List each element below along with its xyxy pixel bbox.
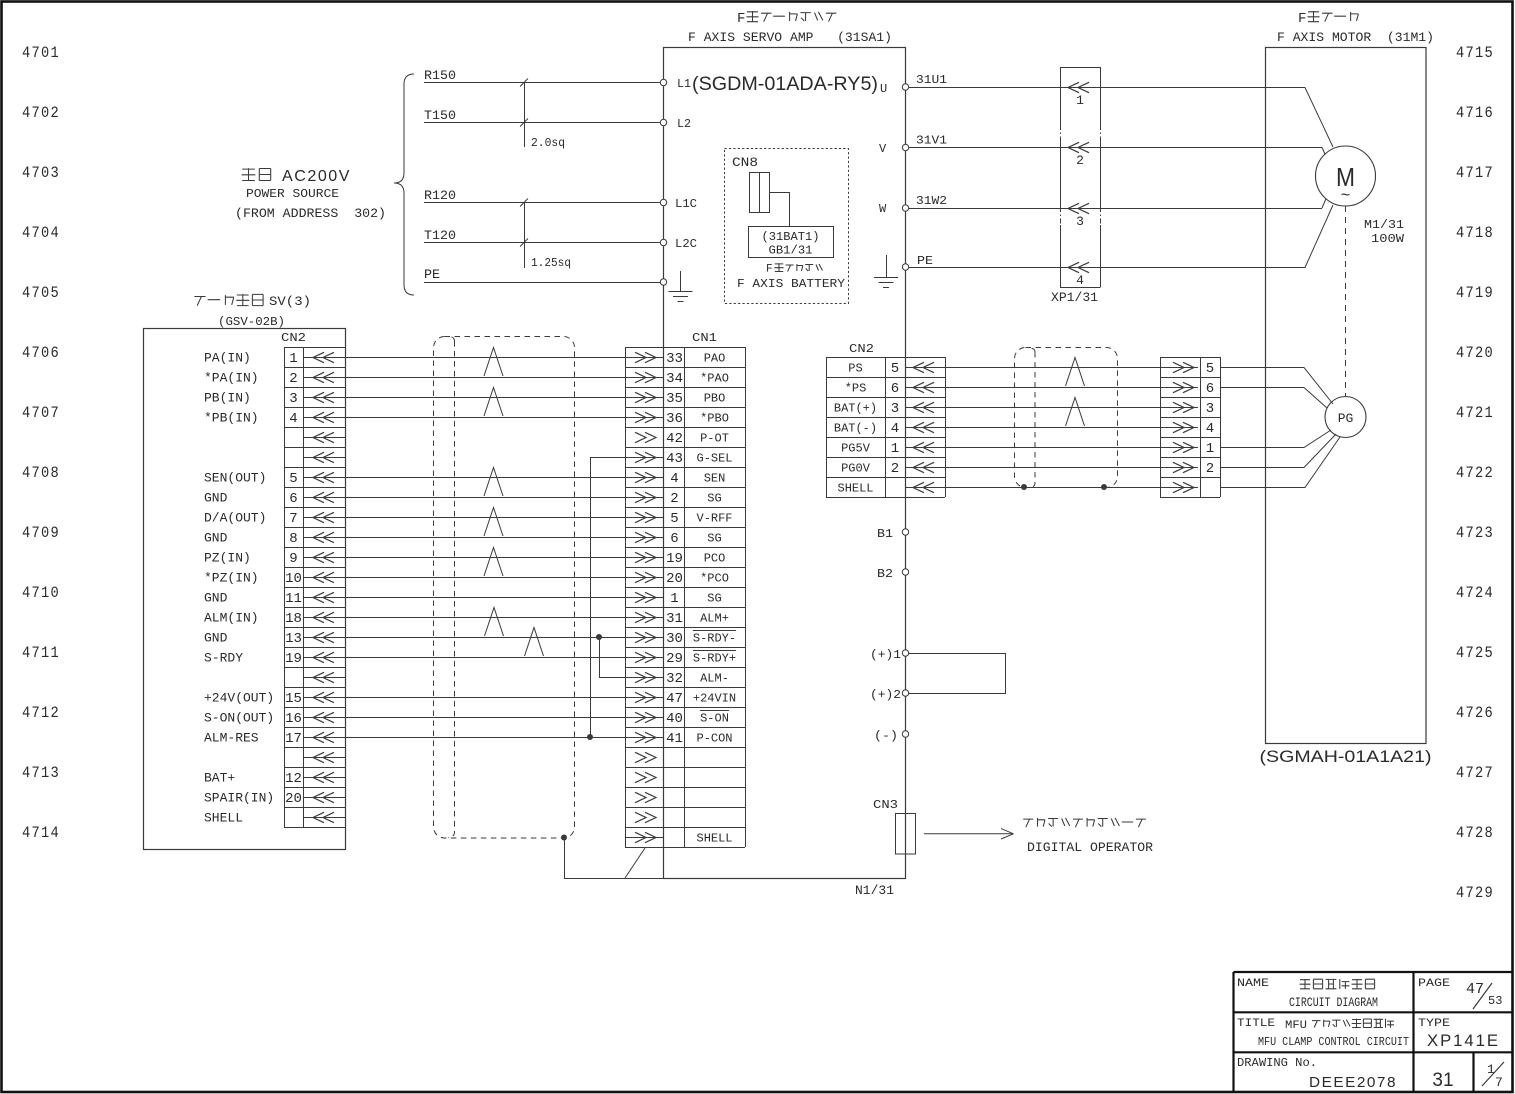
svg-text:T120: T120 [424,228,456,243]
svg-text:2: 2 [289,371,297,387]
svg-text:U: U [880,82,887,96]
svg-text:(+)2: (+)2 [870,688,901,702]
svg-text:1: 1 [1487,1062,1495,1077]
svg-text:4703: 4703 [22,164,60,182]
svg-text:4729: 4729 [1456,884,1494,902]
svg-text:CN3: CN3 [873,798,898,812]
motor shaft dashed link M to PG [1345,206,1347,397]
svg-text:SHELL: SHELL [697,832,733,846]
svg-text:16: 16 [285,711,302,727]
svg-text:4713: 4713 [22,764,60,782]
XP1 pin 2 arrow [1068,142,1079,152]
svg-text:4726: 4726 [1456,704,1494,722]
svg-text:SHELL: SHELL [204,811,243,826]
wire amp CN2 row 2 to motor connector [906,387,1161,389]
CN1 arrow row 18 [625,697,664,699]
svg-text:43: 43 [666,451,683,467]
twisted pair mark S-RDY pair [525,628,544,657]
svg-text:34: 34 [666,371,683,387]
svg-text:SHELL: SHELL [838,482,874,496]
svg-text:19: 19 [666,551,683,567]
svg-text:15: 15 [285,691,302,707]
board CN2 arrow row 3 [304,397,345,399]
svg-text:4715: 4715 [1456,44,1494,62]
svg-text:XP141E: XP141E [1427,1031,1500,1050]
CN1 arrow row 4 [625,417,664,419]
wire gauge marker 2.0sq [524,83,526,148]
twisted pair mark SEN pair [484,468,503,497]
twisted pair mark PB pair [484,388,503,417]
svg-text:41: 41 [666,731,683,747]
svg-text:*PAO: *PAO [700,372,729,386]
wire U to XP1 pin1 [909,87,1264,89]
svg-text:L2C: L2C [675,237,697,251]
wire V to XP1 pin2 [909,147,1322,149]
svg-text:CN2: CN2 [849,342,874,356]
board CN2 arrow row 23 [304,797,345,799]
wire encoder pin2 to PG [1220,434,1336,468]
connector XP1/31 box [1060,67,1101,69]
wire board pin row 11 to CN1 [345,557,625,559]
svg-text:S-ON(OUT): S-ON(OUT) [204,711,274,726]
CN1 arrow row 23 [645,792,656,802]
twisted pair mark PA pair [484,348,503,377]
wire PE into motor [1264,205,1333,268]
wire amp CN2 row 3 to motor connector [906,407,1161,409]
ground symbol at PE input [680,271,682,291]
svg-text:4722: 4722 [1456,464,1494,482]
svg-text:L1C: L1C [675,197,697,211]
svg-text:4: 4 [891,421,899,437]
wire gauge marker 1.25sq [524,203,526,269]
board CN2 arrow row 8 [304,497,345,499]
svg-text:POWER SOURCE: POWER SOURCE [246,187,339,201]
svg-text:(SGMAH-01A1A21): (SGMAH-01A1A21) [1260,747,1432,766]
svg-text:4705: 4705 [22,284,60,302]
wire PE to XP1 pin4 [909,267,1264,269]
svg-text:PG0V: PG0V [841,462,871,476]
servo board label JP: servo kiban SV(3) [194,294,263,306]
svg-text:4724: 4724 [1456,584,1494,602]
motor box 31M1 [1266,48,1427,744]
svg-text:4706: 4706 [22,344,60,362]
wire board pin row 8 to CN1 [345,497,625,499]
svg-text:36: 36 [666,411,683,427]
terminal PE output [902,264,908,270]
wire board pin row 19 to CN1 [345,717,625,719]
CN1 arrow row 6 [625,457,664,459]
svg-text:4711: 4711 [22,644,60,662]
board CN2 pin table grid [284,347,345,828]
svg-text:4725: 4725 [1456,644,1494,662]
svg-text:(-): (-) [874,729,898,743]
ground symbol at PE output [886,255,888,277]
terminal B1 [902,529,908,535]
svg-text:G-SEL: G-SEL [697,452,733,466]
svg-text:2: 2 [670,491,678,507]
shield cable inner boundary (right) [1029,348,1035,488]
arrow CN3 to digital operator [924,833,1013,835]
svg-text:W: W [879,202,887,216]
svg-text:ALM-: ALM- [700,672,729,686]
terminal L2C [660,239,666,245]
svg-text:2: 2 [1076,153,1084,168]
svg-text:9: 9 [289,551,297,567]
power source label JP: dengen AC200V [242,168,271,181]
svg-text:GND: GND [204,591,228,606]
terminal PE input [660,279,666,285]
board CN2 arrow row 17 [304,677,345,679]
svg-text:18: 18 [285,611,302,627]
motor encoder connector table grid [1160,357,1221,498]
CN1 arrow row 25 [625,837,664,839]
svg-text:4721: 4721 [1456,404,1494,422]
svg-text:20: 20 [666,571,683,587]
CN1 arrow row 15 [625,637,664,639]
svg-text:BAT+: BAT+ [204,771,235,786]
shield drain wire to CN1 SHELL [565,838,664,879]
wire amp CN2 row 7 to motor connector [906,487,1161,489]
svg-text:8: 8 [289,531,297,547]
svg-text:PG: PG [1338,411,1354,426]
board CN2 arrow row 7 [304,477,345,479]
terminal (-) [902,731,908,737]
svg-text:4: 4 [1076,273,1084,288]
wire amp CN2 row 5 to motor connector [906,447,1161,449]
svg-text:7: 7 [1495,1075,1503,1090]
wire board pin row 7 to CN1 [345,477,625,479]
CN1 arrow row 10 [625,537,664,539]
wire encoder pin1 to PG [1220,430,1331,448]
svg-text:R120: R120 [424,188,456,203]
svg-text:4: 4 [1206,421,1214,437]
svg-text:5: 5 [289,471,297,487]
svg-text:3: 3 [1076,214,1084,229]
amp CN2 arrow row 5 [913,442,924,452]
svg-text:PA(IN): PA(IN) [204,351,251,366]
svg-text:GND: GND [204,491,228,506]
amp CN2 table grid [826,357,946,498]
wire board pin row 14 to CN1 [345,617,625,619]
svg-text:PB(IN): PB(IN) [204,391,251,406]
CN1 arrow row 19 [625,717,664,719]
CN1 arrow row 5 [645,432,656,442]
svg-text:GB1/31: GB1/31 [769,244,813,258]
svg-text:13: 13 [285,631,302,647]
shield cable inner boundary (left) [448,337,455,838]
svg-text:L1: L1 [677,77,691,91]
svg-text:PS: PS [848,362,862,376]
wire GND13 branch to ALM- [600,637,626,678]
wire U into motor [1264,88,1333,148]
wire board pin row 10 to CN1 [345,537,625,539]
svg-text:PAO: PAO [704,352,726,366]
svg-text:L2: L2 [677,117,691,131]
wire G-SEL to P-CON net [591,458,626,738]
svg-text:1: 1 [670,591,678,607]
wire board pin row 2 to CN1 [345,377,625,379]
motor connector arrow row 7 [1160,487,1198,489]
svg-text:*PB(IN): *PB(IN) [204,411,259,426]
CN1 arrow row 16 [625,657,664,659]
CN1 arrow row 17 [625,677,664,679]
svg-text:CN8: CN8 [732,155,758,170]
svg-text:S-RDY-: S-RDY- [693,632,736,646]
CN8 connector symbol [750,173,770,213]
CN1 arrow row 3 [625,397,664,399]
svg-text:2: 2 [891,461,899,477]
CN1 arrow row 20 [625,737,664,739]
svg-text:33: 33 [666,351,683,367]
svg-text:V-RFF: V-RFF [697,512,733,526]
board CN2 arrow row 22 [304,777,345,779]
svg-text:CN1: CN1 [692,331,717,345]
svg-text:F AXIS MOTOR (31M1): F AXIS MOTOR (31M1) [1277,30,1434,45]
regen jumper wire (+)1 to (+)2 [909,654,1006,694]
svg-text:31: 31 [666,611,683,627]
wire encoder shell to PG [1220,437,1340,488]
svg-text:SG: SG [707,492,721,506]
svg-text:6: 6 [670,531,678,547]
svg-text:P-CON: P-CON [697,732,733,746]
twisted pair mark PS pair [1066,358,1085,387]
svg-text:D/A(OUT): D/A(OUT) [204,511,266,526]
wire W to XP1 pin3 [909,208,1322,210]
svg-text:SPAIR(IN): SPAIR(IN) [204,791,274,806]
svg-text:6: 6 [1206,381,1214,397]
motor symbol M [1316,146,1376,206]
svg-text:19: 19 [285,651,302,667]
amp CN2 arrow row 6 [913,462,924,472]
CN1 arrow row 24 [645,812,656,822]
svg-text:S-RDY: S-RDY [204,651,243,666]
XP1 pin 3 arrow [1068,203,1079,213]
board CN2 arrow row 14 [304,617,345,619]
svg-text:(31BAT1): (31BAT1) [762,230,820,244]
svg-text:31U1: 31U1 [916,73,947,87]
svg-text:4701: 4701 [22,44,60,62]
junction dot G-SEL/P-CON [587,734,593,740]
motor connector arrow row 4 [1160,427,1198,429]
svg-text:DEEE2078: DEEE2078 [1309,1074,1397,1091]
board CN2 arrow row 2 [304,377,345,379]
CN1 arrow row 7 [625,477,664,479]
svg-text:(FROM ADDRESS 302): (FROM ADDRESS 302) [235,206,386,221]
svg-text:40: 40 [666,711,683,727]
svg-text:6: 6 [891,381,899,397]
svg-text:1: 1 [891,441,899,457]
board CN2 arrow row 18 [304,697,345,699]
servo amp box 31SA1 [664,48,906,879]
wire board pin row 3 to CN1 [345,397,625,399]
motor connector arrow row 2 [1160,387,1198,389]
svg-text:1: 1 [1206,441,1214,457]
encoder symbol PG [1325,397,1366,438]
terminal U [902,84,908,90]
svg-text:CN2: CN2 [281,331,306,345]
twisted pair mark PZ pair [484,548,503,577]
svg-text:PAGE: PAGE [1418,978,1450,990]
row reference numbers left column [22,44,60,842]
board CN2 arrow row 11 [304,557,345,559]
svg-text:42: 42 [666,431,683,447]
svg-text:XP1/31: XP1/31 [1051,290,1098,305]
svg-text:5: 5 [670,511,678,527]
twisted pair mark D/A pair [484,508,503,537]
svg-text:N1/31: N1/31 [855,883,894,898]
svg-text:100W: 100W [1371,232,1405,246]
svg-text:DIGITAL OPERATOR: DIGITAL OPERATOR [1027,840,1153,855]
svg-text:4717: 4717 [1456,164,1494,182]
board CN2 arrow row 13 [304,597,345,599]
board CN2 arrow row 16 [304,657,345,659]
svg-text:+24VIN: +24VIN [693,692,736,706]
CN1 arrow row 1 [625,357,664,359]
svg-text:2: 2 [1206,461,1214,477]
svg-text:47: 47 [666,691,683,707]
twisted pair mark BAT pair [1066,398,1085,427]
amp CN1 table grid [625,347,746,848]
svg-text:CIRCUIT DIAGRAM: CIRCUIT DIAGRAM [1289,995,1378,1010]
shield junction dot left (right cable) [1021,484,1027,490]
svg-text:12: 12 [285,771,302,787]
board CN2 arrow row 12 [304,577,345,579]
board CN2 arrow row 10 [304,537,345,539]
shield junction dot right (right cable) [1101,484,1107,490]
svg-text:4728: 4728 [1456,824,1494,842]
svg-text:30: 30 [666,631,683,647]
svg-text:4709: 4709 [22,524,60,542]
board CN2 arrow row 21 [304,757,345,759]
CN1 arrow row 12 [625,577,664,579]
svg-text:4707: 4707 [22,404,60,422]
svg-text:17: 17 [285,731,302,747]
motor connector arrow row 5 [1160,447,1198,449]
CN1 arrow row 13 [625,597,664,599]
terminal (+)2 [902,690,908,696]
terminal L1 [660,79,666,85]
shield junction dot (left cable) [561,835,567,841]
svg-text:4714: 4714 [22,824,60,842]
terminal L1C [660,199,666,205]
svg-text:F AXIS BATTERY: F AXIS BATTERY [737,277,845,291]
wire board pin row 9 to CN1 [345,517,625,519]
terminal W [902,205,908,211]
svg-text:P-OT: P-OT [700,432,729,446]
terminal V [902,144,908,150]
CN1 arrow row 14 [625,617,664,619]
svg-text:4708: 4708 [22,464,60,482]
wire board pin row 15 to CN1 [345,637,625,639]
svg-text:MFU CLAMP CONTROL CIRCUIT: MFU CLAMP CONTROL CIRCUIT [1258,1035,1409,1049]
svg-text:10: 10 [285,571,302,587]
board CN2 arrow row 5 [304,437,345,439]
svg-text:MFU: MFU [1285,1020,1307,1032]
shield cable capsule (left) dashed outline [434,337,575,839]
board CN2 arrow row 4 [304,417,345,419]
row reference numbers right column [1456,44,1494,902]
svg-text:(SGDM-01ADA-RY5): (SGDM-01ADA-RY5) [692,74,878,95]
svg-text:M1/31: M1/31 [1364,218,1404,232]
svg-text:F: F [737,11,745,27]
junction dot GND13 branch [596,634,602,640]
CN1 arrow row 21 [645,752,656,762]
wire encoder pin6 to PG [1220,388,1327,409]
wire V into motor [1322,148,1329,163]
svg-text:F: F [766,264,773,276]
svg-text:B1: B1 [877,527,893,541]
svg-text:*PA(IN): *PA(IN) [204,371,259,386]
motor connector arrow row 3 [1160,407,1198,409]
svg-text:7: 7 [289,511,297,527]
svg-text:(+)1: (+)1 [870,648,901,662]
title block frame [1234,972,1513,1092]
svg-text:(GSV-02B): (GSV-02B) [218,315,285,329]
svg-text:3: 3 [891,401,899,417]
svg-text:4: 4 [670,471,678,487]
svg-text:ALM+: ALM+ [700,612,729,626]
svg-text:31W2: 31W2 [916,194,947,208]
board CN2 arrow row 20 [304,737,345,739]
svg-text:4719: 4719 [1456,284,1494,302]
svg-text:ALM(IN): ALM(IN) [204,611,259,626]
servo board SV(3) box [144,329,346,850]
svg-text:AC200V: AC200V [282,168,351,185]
wire W into motor [1322,193,1329,208]
CN1 arrow row 2 [625,377,664,379]
amp CN2 arrow row 2 [913,382,924,392]
board CN2 arrow row 19 [304,717,345,719]
svg-text:1: 1 [289,351,297,367]
svg-text:PE: PE [424,267,440,282]
svg-text:PZ(IN): PZ(IN) [204,551,251,566]
svg-text:PE: PE [917,254,933,268]
svg-text:DRAWING No.: DRAWING No. [1237,1056,1317,1070]
wire board pin row 1 to CN1 [345,357,625,359]
CN1 arrow row 11 [625,557,664,559]
board CN2 arrow row 9 [304,517,345,519]
svg-text:4727: 4727 [1456,764,1494,782]
board CN2 arrow row 24 [304,817,345,819]
amp CN2 arrow row 4 [913,422,924,432]
svg-text:PCO: PCO [704,552,726,566]
battery 31BAT1 GB1/31 [749,227,834,258]
svg-text:PBO: PBO [704,392,726,406]
svg-text:4720: 4720 [1456,344,1494,362]
svg-text:*PCO: *PCO [700,572,729,586]
wire board pin row 12 to CN1 [345,577,625,579]
svg-text:4: 4 [289,411,297,427]
svg-text:11: 11 [285,591,302,607]
wire amp CN2 row 4 to motor connector [906,427,1161,429]
svg-text:3: 3 [289,391,297,407]
svg-text:B2: B2 [877,567,893,581]
svg-text:4702: 4702 [22,104,60,122]
svg-text:R150: R150 [424,68,456,83]
motor connector arrow row 6 [1160,467,1198,469]
XP1 pin 1 arrow [1068,82,1079,92]
digital operator label JP [1023,818,1146,827]
svg-text:SG: SG [707,532,721,546]
CN8 dotted enclosure [725,149,849,304]
svg-text:4716: 4716 [1456,104,1494,122]
power source brace [394,74,414,295]
svg-text:1: 1 [1076,93,1084,108]
CN1 arrow row 22 [645,772,656,782]
svg-text:F AXIS SERVO AMP (31SA1): F AXIS SERVO AMP (31SA1) [688,30,892,45]
board CN2 arrow row 6 [304,457,345,459]
svg-text:*PS: *PS [845,382,867,396]
